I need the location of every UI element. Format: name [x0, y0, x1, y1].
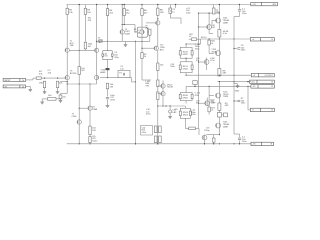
svg-text:A968: A968: [100, 71, 106, 74]
svg-text:0R22: 0R22: [183, 68, 189, 70]
svg-text:470: 470: [99, 42, 103, 44]
svg-text:22u: 22u: [63, 96, 67, 98]
svg-text:1u: 1u: [172, 12, 175, 14]
svg-text:1n0: 1n0: [48, 73, 52, 75]
svg-text:77B: 77B: [145, 85, 149, 87]
svg-text:470n: 470n: [191, 114, 195, 116]
svg-text:4k7: 4k7: [144, 12, 148, 14]
svg-text:22k: 22k: [59, 83, 63, 85]
svg-text:0R1: 0R1: [223, 73, 228, 75]
svg-text:0R22: 0R22: [183, 98, 189, 100]
svg-text:470n: 470n: [142, 132, 146, 134]
svg-text:0-1a: 0-1a: [223, 33, 228, 35]
svg-text:170u: 170u: [210, 60, 214, 62]
svg-text:47k: 47k: [39, 74, 43, 76]
svg-text:GND: GND: [235, 91, 240, 93]
svg-text:1k: 1k: [22, 86, 24, 88]
svg-text:0R1: 0R1: [225, 105, 230, 107]
svg-text:B50: B50: [160, 50, 165, 52]
svg-text:MJ 10: MJ 10: [201, 37, 207, 39]
svg-text:1k0: 1k0: [87, 12, 91, 14]
svg-text:0R22: 0R22: [183, 114, 189, 116]
svg-text:1k0: 1k0: [48, 95, 52, 97]
svg-text:118M: 118M: [223, 22, 228, 24]
svg-text:C4C: C4C: [211, 103, 216, 105]
svg-text:INPUT: INPUT: [5, 80, 12, 82]
svg-text:470: 470: [88, 20, 92, 22]
svg-text:1k6: 1k6: [160, 65, 164, 67]
svg-text:1k0: 1k0: [109, 12, 113, 14]
svg-text:100n: 100n: [170, 66, 175, 68]
svg-text:T18M: T18M: [223, 96, 228, 98]
svg-text:C868: C868: [92, 109, 98, 111]
svg-text:BC556: BC556: [70, 73, 77, 75]
svg-text:100n: 100n: [241, 50, 245, 52]
svg-text:C546: C546: [72, 116, 78, 118]
svg-text:350A: 350A: [211, 50, 216, 53]
svg-text:56B: 56B: [70, 45, 74, 47]
svg-text:100m: 100m: [92, 140, 97, 142]
svg-text:100n: 100n: [186, 13, 191, 15]
svg-text:+VC: +VC: [252, 4, 257, 6]
svg-text:1k: 1k: [144, 56, 147, 58]
svg-text:470m: 470m: [110, 99, 115, 101]
svg-text:2k2: 2k2: [81, 70, 85, 72]
svg-text:4u7: 4u7: [88, 46, 92, 48]
svg-text:1700p: 1700p: [204, 130, 210, 132]
svg-text:470n: 470n: [195, 49, 200, 51]
svg-text:0R22: 0R22: [183, 54, 189, 56]
svg-text:-VC: -VC: [252, 144, 256, 146]
svg-text:47: 47: [189, 36, 191, 38]
svg-text:470n: 470n: [146, 114, 150, 116]
svg-text:118M: 118M: [223, 126, 228, 128]
svg-text:100n: 100n: [241, 103, 245, 105]
svg-text:1k: 1k: [211, 43, 213, 45]
svg-text:T612B: T612B: [167, 87, 174, 89]
svg-text:180: 180: [160, 12, 164, 14]
svg-text:100n: 100n: [242, 13, 246, 15]
svg-text:2k2: 2k2: [126, 12, 130, 14]
svg-text:OUTPUT: OUTPUT: [265, 75, 274, 77]
svg-text:050M: 050M: [125, 33, 130, 35]
svg-text:C4C: C4C: [211, 27, 216, 29]
svg-text:100n: 100n: [242, 141, 246, 143]
svg-text:1k: 1k: [22, 80, 24, 82]
svg-text:470n: 470n: [114, 57, 119, 59]
svg-text:5W: 5W: [110, 87, 113, 89]
svg-text:15k: 15k: [69, 12, 73, 14]
svg-text:100: 100: [92, 130, 96, 132]
svg-text:1k: 1k: [211, 110, 213, 112]
